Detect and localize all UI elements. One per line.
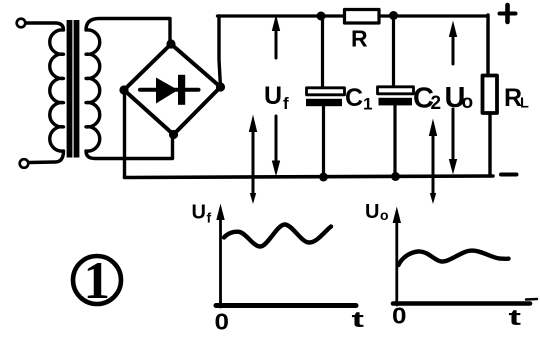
diode inside bridge: anode-cathode line bbox=[140, 88, 199, 92]
capacitor C1 bottom lead bbox=[322, 106, 325, 177]
graph 2: axis end dash bbox=[526, 298, 537, 301]
capacitor C1 top lead bbox=[321, 18, 324, 88]
junction node on top rail left of R bbox=[317, 12, 326, 21]
wire from bridge left vertex down to bottom rail bbox=[123, 92, 126, 177]
terminal top-left (input) bbox=[17, 19, 26, 28]
junction node C2 on bottom rail bbox=[391, 172, 400, 181]
terminal bottom-left (input) bbox=[20, 159, 29, 168]
measurement arrow Uo upper segment (head at top rail) bbox=[452, 32, 455, 64]
svg-text:R: R bbox=[351, 26, 368, 52]
capacitor C2 bottom plate (solid) bbox=[379, 98, 413, 106]
measurement arrow Uf lower segment (head at bottom rail) bbox=[275, 116, 278, 165]
load resistor RL bbox=[483, 76, 498, 114]
node: bridge right vertex bbox=[216, 82, 225, 91]
secondary winding with top wire to bridge and bottom wire to bridge bottom vertex bbox=[86, 19, 173, 159]
svg-text:o: o bbox=[462, 92, 474, 113]
minus terminal symbol bbox=[501, 173, 517, 177]
svg-text:o: o bbox=[380, 207, 389, 223]
graph 2: y axis with arrow bbox=[395, 219, 398, 305]
svg-text:1: 1 bbox=[363, 95, 372, 114]
wire from bridge right vertex to top rail bbox=[219, 16, 221, 87]
svg-text:t: t bbox=[509, 305, 523, 330]
graph 2: x axis bbox=[393, 301, 530, 306]
svg-text:t: t bbox=[352, 307, 366, 332]
node: bridge top vertex bbox=[166, 39, 175, 48]
wire from top rail down to RL bbox=[486, 15, 489, 76]
figure number: circled 1 bbox=[73, 256, 121, 304]
graph 2: smoothed curve Uo bbox=[399, 251, 509, 265]
capacitor C2 top lead bbox=[392, 17, 395, 87]
svg-text:2: 2 bbox=[431, 93, 442, 114]
graph 1: y axis with arrow bbox=[219, 216, 222, 307]
svg-text:U: U bbox=[264, 82, 282, 110]
indicator arrow from graph 2 up across bottom rail bbox=[432, 132, 435, 197]
node: bridge bottom vertex bbox=[169, 130, 178, 139]
node: bridge left vertex bbox=[119, 85, 128, 94]
transformer core bar 1 bbox=[67, 20, 73, 158]
transformer core bar 2 bbox=[74, 20, 80, 158]
diode triangle bbox=[156, 78, 178, 104]
measurement arrow Uo lower segment (head at bottom rail) bbox=[452, 109, 455, 160]
graph 1: ripple curve Uf bbox=[224, 224, 331, 246]
svg-text:L: L bbox=[520, 96, 529, 112]
svg-text:C: C bbox=[345, 84, 363, 112]
svg-text:U: U bbox=[192, 202, 206, 224]
capacitor C1 bottom plate (solid) bbox=[306, 99, 342, 106]
wire from RL down to bottom rail bbox=[488, 113, 491, 176]
capacitor C2 bottom lead bbox=[393, 106, 396, 177]
svg-text:f: f bbox=[207, 210, 212, 226]
svg-text:0: 0 bbox=[392, 303, 407, 329]
indicator arrow from graph 1 up across bottom rail bbox=[252, 128, 255, 197]
bridge rectifier outline (diamond) bbox=[124, 44, 221, 135]
capacitor C2 top plate (hollow) bbox=[378, 87, 414, 94]
svg-text:U: U bbox=[365, 201, 379, 223]
svg-text:0: 0 bbox=[215, 309, 230, 335]
capacitor C1 top plate (hollow) bbox=[307, 88, 345, 95]
junction node on top rail right of R bbox=[389, 11, 398, 20]
svg-text:1: 1 bbox=[84, 252, 111, 310]
diode cathode bar bbox=[178, 75, 185, 105]
resistor R (series filter resistor) bbox=[345, 10, 380, 24]
measurement arrow Uf upper segment (head at top rail) bbox=[275, 26, 278, 58]
wire: bottom (-) rail bbox=[125, 176, 494, 178]
wire: top (+) rail bbox=[218, 14, 489, 17]
svg-text:f: f bbox=[283, 94, 289, 113]
junction node C1 on bottom rail bbox=[319, 173, 328, 182]
plus terminal symbol bbox=[500, 12, 516, 16]
graph 1: x axis bbox=[216, 303, 356, 308]
primary winding with lead wires bbox=[26, 23, 64, 163]
